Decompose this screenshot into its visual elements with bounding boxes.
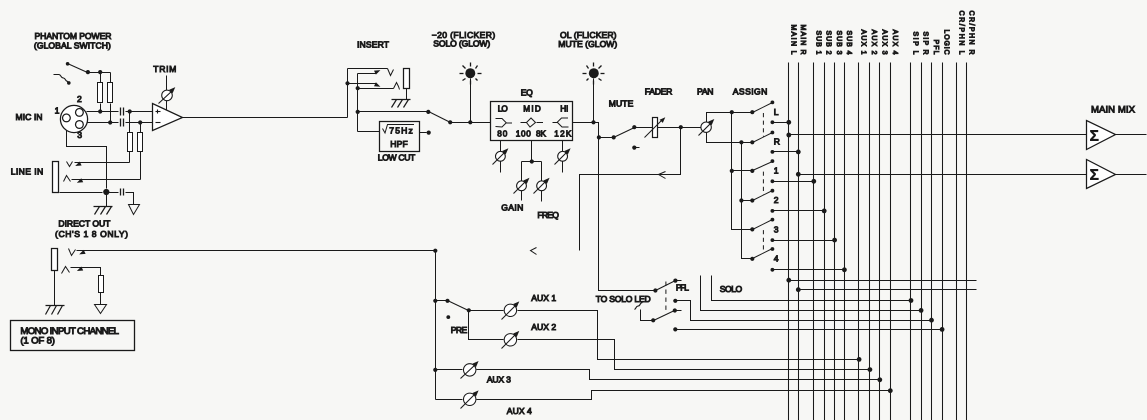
svg-text:3: 3 [774,224,779,234]
svg-text:HPF: HPF [390,139,408,149]
insert jack body [404,69,410,89]
signal ground triangle under C3 [129,205,140,215]
svg-text:100: 100 [516,129,531,138]
svg-text:MAIN R: MAIN R [799,25,806,55]
svg-text:GAIN: GAIN [501,203,523,213]
svg-text:LOW CUT: LOW CUT [378,153,416,163]
direct-out tip contact [69,249,76,256]
svg-text:FREQ: FREQ [537,210,559,220]
wire solo led to lower switch [641,310,654,321]
svg-text:PRE: PRE [451,325,468,335]
insert ring normal wire [348,83,377,85]
wire MAIN R bus tap to control room [796,287,801,292]
svg-text:2: 2 [77,94,82,104]
bus line AUX 4 [890,63,892,420]
wire mute to fader [635,127,653,129]
direct-out jack J3 body [52,249,58,271]
svg-text:AUX 1: AUX 1 [859,30,866,55]
direct-out tip wire (post-fader tap) [77,250,436,252]
svg-text:MAIN MIX: MAIN MIX [1091,104,1136,115]
capacitor C1 mic+ [120,108,122,116]
svg-text:Σ: Σ [1090,168,1099,184]
svg-text:MUTE (GLOW): MUTE (GLOW) [558,39,617,49]
svg-text:HI: HI [560,104,568,113]
assign feed rail A (L/1/3) [732,113,753,230]
bus line MAIN L [788,63,790,420]
svg-text:SUB 2: SUB 2 [825,31,832,55]
bus line SUB 4 [844,63,846,420]
wire ground node to C3 [107,192,119,194]
svg-text:SIP R: SIP R [922,32,929,55]
svg-text:L: L [774,107,779,117]
svg-text:SUB 3: SUB 3 [835,31,842,55]
line-in tip contact [67,162,73,167]
wire aux2 to bus [518,340,870,370]
wire direct-out sleeve down [54,271,56,306]
75Hz HPF box [380,122,420,152]
wire HPF input [358,131,380,133]
bus line SIP L [910,63,912,420]
svg-text:PFL: PFL [932,40,939,55]
XLR pin 1 [63,114,71,122]
bus line PFL [931,63,933,420]
ground node junction [103,189,109,195]
svg-text:CR/PHN L: CR/PHN L [957,11,964,55]
potentiometer AUX 4 [464,393,476,405]
bus line CR/PHN L [956,63,958,420]
svg-text:SUB 4: SUB 4 [845,31,852,55]
wire main right output [1116,174,1147,176]
MID peak icon [521,118,544,127]
potentiometer MID FREQ [537,181,547,191]
insert jack ring contact [394,83,400,90]
signal-flow arrow on direct-out wire [531,248,537,255]
svg-text:1: 1 [774,166,779,176]
bus line SUB 3 [834,63,836,420]
HI shelf icon [553,118,569,127]
wire aux2 send [469,311,504,340]
chassis ground under insert jack [392,99,411,101]
XLR pin 2 [76,109,84,117]
pre/post switch arm [448,301,469,311]
svg-text:LOGIC: LOGIC [943,30,950,55]
svg-text:PAN: PAN [697,87,714,97]
wire aux3 send [436,369,463,371]
line-in tip normal wire to R3 [75,162,130,164]
svg-text:LO: LO [498,104,508,113]
wire op-amp output to insert [183,117,348,119]
wire insert return bus [357,74,359,132]
svg-text:MAIN L: MAIN L [789,25,796,55]
pre/post switch stub [436,300,448,302]
svg-text:3: 3 [77,130,82,140]
svg-text:AUX 2: AUX 2 [870,30,877,55]
svg-text:AUX 1: AUX 1 [531,293,556,303]
svg-text:2: 2 [774,195,779,205]
assign gang link 3-4 [762,230,764,253]
potentiometer MID GAIN [517,181,527,191]
svg-text:SUB 1: SUB 1 [814,31,821,55]
svg-text:LINE IN: LINE IN [11,166,44,176]
aux feed rail [435,251,437,400]
wire aux1 send [469,310,504,312]
direct-out ring contact [62,267,70,274]
wire R3 to line-in tip [129,152,131,163]
solo switch upper arm [656,281,676,291]
bus line CR/PHN R [966,63,968,420]
wire ground node down [106,193,108,207]
bus line AUX 1 [858,63,860,420]
line-in ring contact [64,176,71,182]
resistor R2 phantom [108,83,113,103]
TRIM stub to op-amp [166,101,168,111]
wire insert tip send [348,68,388,70]
wire LED D1 to signal [470,79,472,121]
assign switch 4 [750,257,754,261]
wire C3 to signal ground [126,193,134,205]
solo bracket to SIP R bus [701,276,922,311]
LO shelf icon [496,119,513,128]
assign switch R [750,140,754,144]
wire phantom feed [88,72,111,74]
svg-text:AUX 2: AUX 2 [531,322,556,332]
wire LED D2 to signal [593,79,595,121]
line-in jack J2 body [53,162,59,193]
svg-text:MUTE: MUTE [609,99,634,109]
wire pre-fader tap to solo switch [599,138,656,291]
potentiometer AUX 1 [504,304,516,316]
wire aux3 to bus [477,370,880,380]
solo contact to PFL bus [673,299,677,303]
pre/post post contact [446,315,450,319]
wire MID pots bracket [522,141,542,181]
svg-text:AUX 4: AUX 4 [507,406,532,416]
svg-text:INSERT: INSERT [357,40,390,50]
direct-out ring wire to R5 [71,268,101,276]
resistor R5 direct out [99,276,104,293]
wire R2 to mic- node [110,104,112,123]
svg-text:SOLO (GLOW): SOLO (GLOW) [433,38,490,48]
svg-text:EQ: EQ [521,88,533,98]
bus line AUX 3 [879,63,881,420]
wire post-fader tap down [580,128,681,251]
sum amp U2 main left [1087,121,1116,150]
wire aux1 to bus [518,311,860,360]
potentiometer AUX 3 [464,364,476,376]
assign switch L [750,110,754,114]
svg-text:SOLO: SOLO [720,284,743,294]
potentiometer HI [558,151,568,161]
assign gang link L-R [762,113,764,137]
wire mic- cap to op-amp [126,122,153,124]
bus line SUB 1 [813,63,815,420]
svg-text:AUX 3: AUX 3 [880,30,887,55]
solo gang link dashed [665,282,667,312]
wire R4 to line-in ring [140,152,142,180]
wire mic- pin3 to cap [87,122,119,124]
XLR pin 3 [76,121,84,129]
svg-text:R: R [774,136,780,146]
wire mic+ cap to op-amp [126,111,153,113]
MONO INPUT CHANNEL box [11,321,135,351]
XLR connector J1 MIC IN [60,105,87,132]
svg-text:MIC IN: MIC IN [16,112,43,122]
svg-text:80: 80 [497,129,507,138]
wire MAIN L bus tap to control room [786,278,791,283]
fader F1 [653,118,658,138]
wire line-in sleeve to ground node [60,192,103,194]
resistor R4 mic- termination [138,133,143,152]
wire mic+ node down to R3 [129,112,131,133]
assign gang link 1-2 [762,172,764,195]
wire R5 to signal ground [100,293,102,305]
wire to EQ input [451,122,491,124]
chassis ground under direct-out jack [46,305,65,307]
potentiometer TRIM [162,90,173,101]
solo bracket to SIP L bus [712,276,911,301]
svg-text:PHANTOM POWER: PHANTOM POWER [35,31,112,41]
insert ring return wire [358,88,394,90]
capacitor C2 mic- [120,119,122,127]
LED D2 OL/MUTE [589,68,599,78]
wire rail B to switch 2 [742,200,753,202]
svg-text:Σ: Σ [1090,128,1099,144]
wire pan R output [707,133,753,143]
insert jack tip contact [388,69,394,76]
solo switch lower arm [654,311,675,321]
bus line AUX 2 [869,63,871,420]
bus line MAIN R [798,63,800,420]
resistor R3 mic+ termination [128,133,133,152]
svg-text:AUX 4: AUX 4 [891,30,898,55]
wire rail A to switch 1 [732,170,753,172]
wire XLR shell to ground node [67,131,107,189]
low-cut bypass switch arm [429,112,451,123]
capacitor C3 ground [120,189,122,196]
svg-text:12K: 12K [554,129,572,138]
TRIM stub above [166,76,168,91]
wire HPF output stub [420,132,427,134]
svg-text:DIRECT OUT: DIRECT OUT [58,219,111,229]
svg-text:SIP L: SIP L [912,32,919,55]
potentiometer LO [496,151,506,161]
wire pan L output [707,113,753,123]
assign switch 3 [750,227,754,231]
svg-text:MID: MID [523,104,541,113]
assign 3 contact to bus [771,238,775,242]
assign 4 contact to bus [771,268,775,272]
bus line SUB 2 [824,63,826,420]
svg-text:1: 1 [55,106,60,116]
solo upper throw stub [676,280,682,282]
wire fader to pan [658,127,701,129]
bus line SIP R [921,63,923,420]
assign 2 contact to bus [771,209,775,213]
wire HI pot stub [562,141,564,152]
wire main left output [1116,134,1147,136]
solo contact to LOGIC bus [673,327,677,331]
svg-text:TRIM: TRIM [153,64,176,74]
assign L contact to bus [771,120,775,124]
solo led squiggle [635,303,643,310]
mute switch lower contact [632,146,636,150]
line-in ring normal wire to R4 [72,179,141,181]
signal ground triangle under R5 [95,305,107,314]
insert tip normal return wire [358,73,377,75]
svg-text:4: 4 [774,254,779,264]
wire EQ output [573,123,599,138]
sum amp U3 main right [1087,160,1116,189]
assign feed rail B (R/2/4) [742,143,753,259]
wire mic- node down to R4 [140,123,142,133]
phantom power switch S1 [68,64,88,73]
svg-text:AUX 3: AUX 3 [487,375,511,385]
wire mic+ pin2 to cap [87,111,119,113]
wire to low-cut bypass switch [358,111,427,113]
wire MAIN L bus to sum amp [786,133,791,138]
wire insert send riser [347,69,349,118]
svg-text:(GLOBAL SWITCH): (GLOBAL SWITCH) [34,40,111,50]
wire aux4 send [436,399,463,401]
phantom switch gang squiggle [54,75,69,82]
svg-text:(CH'S 1 8 ONLY): (CH'S 1 8 ONLY) [55,229,128,239]
wire R1 to mic+ node [100,104,102,112]
signal-flow arrow to direct out [659,172,666,179]
chassis ground under XLR [94,206,113,208]
svg-text:ASSIGN: ASSIGN [733,87,768,97]
wire aux4 to bus [477,391,891,400]
potentiometer AUX 2 [504,334,516,346]
LED D1 -20/SOLO [465,68,475,78]
wire to mute switch [599,137,614,139]
svg-text:75Hz: 75Hz [389,126,413,136]
svg-text:FADER: FADER [645,87,673,97]
solo lower throw stub [675,310,682,312]
resistor R1 phantom [98,83,103,103]
svg-text:PFL: PFL [676,282,689,292]
wire MAIN R bus to sum amp [796,172,801,177]
assign switch 1 [750,169,754,173]
svg-text:CR/PHN R: CR/PHN R [967,11,974,55]
potentiometer PAN [701,122,711,132]
svg-text:(1 OF 8): (1 OF 8) [20,335,55,346]
EQ box [491,102,573,141]
wire LO pot stub [500,141,502,152]
assign R contact to bus [771,150,775,154]
op-amp U1 mic preamp [153,104,183,131]
assign 1 contact to bus [771,179,775,183]
svg-text:8K: 8K [536,129,547,138]
mute switch arm [614,128,635,138]
bus line LOGIC [942,63,944,420]
assign switch 2 [750,198,754,202]
wire insert sleeve to ground [406,89,408,100]
